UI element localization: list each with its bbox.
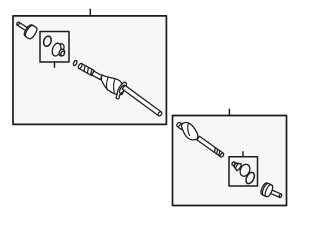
stub shaft (panel 2) — [176, 122, 184, 130]
boot kit box tick (panel 1) — [54, 62, 56, 67]
boot kit box (panel 1) — [40, 32, 69, 63]
long axle shaft with splined end (panel 2) — [197, 136, 224, 157]
snap ring (panel 1) — [73, 60, 78, 66]
flange tab (panel 1) — [116, 94, 120, 99]
panel 1 frame — [13, 16, 166, 125]
panel 2 callout tick — [228, 109, 230, 115]
boot kit box tick (panel 2) — [242, 152, 244, 157]
long axle shaft (panel 1) — [122, 85, 162, 116]
panel 2 frame — [173, 116, 287, 206]
clamp ring in box (panel 1) — [42, 35, 52, 47]
CV boot in box (panel 2) — [230, 160, 252, 178]
joint cup flange (panel 1) — [115, 81, 128, 97]
CV boot in box (panel 1) — [51, 42, 66, 57]
panel 1 callout tick — [89, 9, 91, 16]
outer joint boot and housing (panel 2) — [182, 123, 198, 140]
bolt (panel 1, hub nut) — [14, 17, 39, 40]
inner joint body (panel 1) — [101, 75, 122, 95]
clamp ring in box (panel 2) — [244, 171, 256, 185]
boot kit box (panel 2) — [229, 157, 258, 186]
bolt (panel 2, hub nut) — [259, 182, 284, 202]
axle splined stub and neck (panel 1) — [78, 63, 103, 80]
